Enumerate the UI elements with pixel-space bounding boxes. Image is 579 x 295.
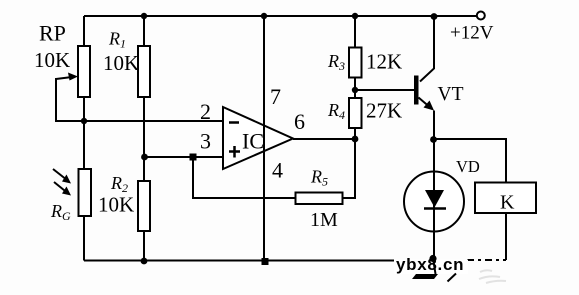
svg-text:3: 3	[200, 129, 211, 154]
svg-text:RP: RP	[39, 21, 66, 46]
wire R1 top lead	[143, 16, 145, 46]
wire R5 right lead	[343, 139, 356, 198]
svg-text:+12V: +12V	[450, 23, 494, 44]
wire relay top net	[434, 139, 506, 183]
diode VD	[404, 172, 464, 232]
node bottom R2	[141, 258, 148, 265]
node bottom supply	[262, 258, 269, 265]
wire RP wiper drop	[56, 78, 84, 121]
resistor R2	[138, 181, 150, 231]
wire R3 bottom lead	[354, 77, 356, 98]
wire R3 top lead	[354, 16, 356, 48]
wire top rail	[84, 15, 434, 17]
wire R2 bottom lead	[143, 231, 145, 261]
wire RG top lead	[83, 121, 85, 169]
node bottom ground	[429, 255, 436, 262]
svg-text:10K: 10K	[34, 48, 70, 72]
wire diode column	[433, 139, 435, 261]
watermark ybx8.cn	[394, 255, 468, 274]
node top R3	[352, 13, 358, 19]
wire bottom rail	[84, 260, 433, 262]
svg-text:12K: 12K	[366, 50, 402, 74]
svg-text:VD: VD	[456, 157, 480, 176]
svg-text:10K: 10K	[103, 51, 139, 75]
op-amp U1 IC	[223, 107, 293, 169]
wire collector net	[420, 16, 434, 82]
node top R1	[141, 13, 147, 19]
wire R2 top lead	[143, 157, 145, 181]
svg-text:VT: VT	[438, 84, 464, 105]
photoresistor RG	[53, 169, 91, 216]
wire supply through opamp	[263, 108, 265, 168]
wire pin3 net	[144, 156, 223, 158]
node top supply	[261, 13, 267, 19]
svg-text:IC: IC	[242, 129, 264, 154]
svg-text:7: 7	[270, 84, 281, 109]
wire R1 bottom lead	[143, 97, 145, 157]
wire RP top lead	[83, 16, 85, 46]
wire opamp output	[293, 138, 355, 140]
svg-text:27K: 27K	[366, 99, 402, 123]
wire R4 bottom lead	[354, 128, 356, 139]
svg-text:2: 2	[200, 99, 211, 124]
svg-text:6: 6	[294, 109, 305, 134]
node emitter	[430, 136, 437, 143]
decorative faint marks	[479, 270, 506, 283]
resistor R3	[349, 48, 362, 78]
wire RG bottom lead	[83, 216, 85, 261]
wire relay return (dash)	[467, 259, 506, 261]
wire feedback to R5	[193, 157, 296, 198]
transistor Q1 VT	[414, 76, 434, 111]
svg-text:1M: 1M	[310, 209, 338, 231]
potentiometer RP	[56, 46, 90, 97]
resistor R4	[349, 98, 362, 128]
wire base net	[355, 89, 414, 91]
wire relay bottom lead	[505, 213, 507, 260]
opamp inverting mark	[229, 121, 239, 124]
node pin3 feedback	[190, 154, 197, 161]
wire pin2 net	[84, 120, 223, 122]
wire +12V feed	[434, 15, 477, 17]
svg-text:10K: 10K	[98, 193, 134, 217]
node top VT	[431, 13, 438, 20]
wire RP bottom lead	[83, 97, 85, 121]
svg-text:K: K	[500, 192, 515, 214]
wire opamp supply line	[263, 16, 265, 261]
resistor R1	[138, 46, 150, 97]
wire emitter net	[433, 111, 435, 140]
relay K	[475, 183, 536, 214]
wire ground stub over watermark	[433, 258, 436, 274]
node output	[352, 136, 359, 143]
wire ground stub	[433, 258, 435, 274]
terminal +12V	[477, 12, 485, 20]
node pin3 divider	[141, 154, 148, 161]
svg-text:4: 4	[272, 158, 283, 183]
ground	[412, 274, 456, 282]
resistor R5	[296, 193, 343, 205]
opamp non-inverting mark	[229, 146, 240, 158]
node RP wiper junction	[81, 118, 87, 124]
node base divider	[352, 87, 358, 93]
